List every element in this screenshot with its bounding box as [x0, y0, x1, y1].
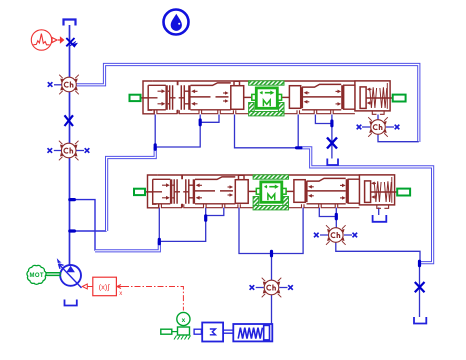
node J9 — [270, 251, 273, 255]
wire valve2 ports B C — [159, 208, 224, 242]
right spool window box — [289, 86, 300, 109]
controller box (x)∫ — [82, 277, 183, 310]
tachometer green — [161, 312, 191, 339]
Ch1 transmitter — [48, 75, 79, 95]
wire supply branch to valve2 — [70, 200, 96, 251]
PIPES-DOUBLE — [70, 25, 433, 265]
wire valve1 ports to throttle — [315, 115, 332, 159]
motor MOT — [27, 265, 61, 284]
svg-text:MOT: MOT — [30, 273, 44, 279]
wire Ch4 to drain junction — [336, 235, 420, 263]
tank T1 top bracket — [64, 20, 76, 26]
wire Ch1 x stub — [54, 84, 62, 86]
wire main vertical pump line — [69, 25, 71, 265]
Ch2 transmitter — [48, 141, 90, 161]
torque motor module green — [249, 81, 284, 116]
svg-text:(x)∫: (x)∫ — [99, 283, 111, 292]
check X2 — [65, 115, 74, 126]
springs — [370, 87, 387, 108]
outer frame left — [143, 81, 154, 114]
signal generator SG1 — [31, 30, 63, 50]
pump P1 variable — [57, 258, 82, 288]
cylinder with spring — [233, 324, 272, 341]
spool box in spring section — [360, 87, 366, 109]
tank T4 under valve2 — [373, 215, 387, 222]
section C chamber — [191, 83, 231, 110]
node J6 — [330, 121, 333, 126]
tank T5 bottom right — [414, 317, 426, 324]
node J2 — [70, 229, 75, 232]
Ch4 transmitter — [314, 225, 357, 245]
outer top — [153, 81, 390, 111]
green connector left — [130, 95, 141, 101]
valve V2 proportional — [134, 175, 410, 210]
bar 1 — [165, 85, 167, 110]
section D chamber — [302, 84, 341, 109]
wire drain junction to tank — [419, 263, 421, 317]
node J1 — [70, 198, 75, 201]
node J11 — [418, 261, 421, 265]
section A chamber — [148, 85, 166, 110]
bar 4 — [341, 85, 343, 109]
wire drain loop right — [301, 148, 433, 263]
throttle X3 — [327, 138, 337, 149]
wire valve2 ports to Ch5 — [239, 208, 303, 288]
bar 3 — [301, 87, 303, 108]
node J8 — [204, 216, 207, 220]
bottom strip segments — [157, 110, 384, 114]
wire Ch5 to cylinder — [271, 288, 273, 324]
tank T2 under pump — [65, 300, 77, 306]
arrows in chambers — [158, 88, 372, 106]
tank T3 under X3 — [327, 159, 338, 166]
wire valve2 port A — [158, 208, 160, 242]
wire supply branch to valve1 — [70, 230, 107, 232]
Ch5 transmitter — [250, 278, 293, 298]
green connector right — [393, 95, 406, 102]
junction ticks — [70, 120, 420, 266]
wire valve2 ports to Ch4 — [319, 208, 336, 236]
wire valve1 port A — [154, 115, 156, 148]
node J10 — [335, 214, 338, 218]
throttle X4 — [415, 282, 425, 292]
throttle X1 with arrow — [66, 38, 78, 48]
wire valve1 ports D E drain — [235, 115, 302, 148]
node J7 — [158, 239, 161, 243]
svg-text:x: x — [119, 291, 122, 297]
wire Ch1 to top loop — [76, 65, 419, 143]
pump unit M box — [194, 323, 238, 342]
node J5 — [297, 146, 301, 149]
node J3 — [154, 145, 157, 150]
PIPES-SINGLE — [54, 85, 420, 324]
wire valve2 tank stub — [378, 208, 380, 216]
section B windows — [170, 85, 185, 110]
Ch3 transmitter — [357, 117, 400, 137]
wire valve1 pilot to Ch3 — [378, 115, 419, 142]
svg-text:x: x — [182, 317, 186, 324]
wire valve1 ports B C — [155, 115, 219, 148]
valve V1 proportional — [130, 81, 406, 116]
green connector feed lines — [141, 97, 393, 99]
spool window box — [231, 86, 244, 110]
wire Ch2 x stub — [54, 150, 84, 152]
droplet logo — [164, 10, 189, 35]
bar 2 — [188, 85, 190, 110]
node J4 — [199, 120, 202, 125]
